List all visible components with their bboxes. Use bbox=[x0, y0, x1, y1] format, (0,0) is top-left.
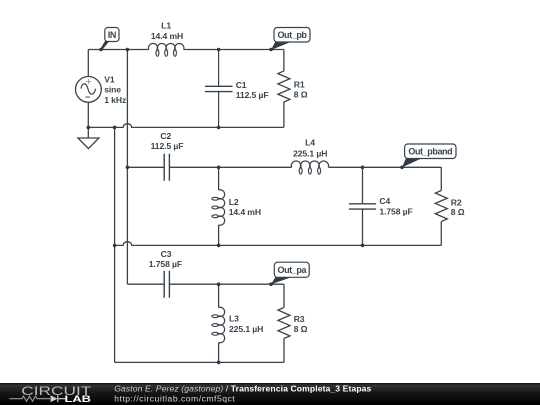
wire L2 leads bbox=[218, 167, 220, 245]
svg-text:14.4 mH: 14.4 mH bbox=[229, 207, 261, 217]
junction L3 top bbox=[217, 282, 221, 286]
junction L2 top bbox=[217, 166, 221, 170]
wire stage3 bottom rail bbox=[115, 361, 284, 363]
wire R1 leads bbox=[283, 50, 285, 128]
svg-text:112.5 µF: 112.5 µF bbox=[236, 90, 269, 100]
wire R2 leads bbox=[440, 167, 442, 245]
svg-text:V1: V1 bbox=[104, 75, 115, 85]
wire IN feed vertical line bbox=[126, 50, 128, 285]
resistor R2 bbox=[435, 191, 447, 222]
junction C1 bottom bbox=[217, 126, 221, 130]
svg-text:R3: R3 bbox=[294, 314, 305, 324]
junction L2 bottom bbox=[217, 244, 221, 248]
svg-text:LAB: LAB bbox=[65, 394, 92, 404]
node IN flag bbox=[100, 28, 119, 51]
junction gnd feed top bbox=[113, 126, 117, 130]
footer bar bbox=[0, 383, 540, 405]
svg-text:R2: R2 bbox=[451, 197, 462, 207]
junction V1 bottom bbox=[87, 126, 91, 130]
svg-text:L4: L4 bbox=[305, 138, 315, 148]
svg-text:Out_pband: Out_pband bbox=[408, 147, 452, 157]
wire C4 leads bbox=[362, 167, 364, 245]
wire V1 bottom lead bbox=[87, 102, 89, 127]
svg-text:14.4 mH: 14.4 mH bbox=[151, 31, 183, 41]
voltage source V1 bbox=[76, 77, 102, 103]
wire V1 top lead bbox=[87, 50, 89, 77]
svg-text:sine: sine bbox=[104, 85, 121, 95]
wire stage1 top rail bbox=[88, 49, 284, 51]
svg-text:8 Ω: 8 Ω bbox=[294, 89, 308, 99]
capacitor C3 bbox=[164, 271, 169, 298]
inductor L4 bbox=[291, 161, 328, 167]
junction L3 bottom bbox=[217, 361, 221, 365]
wire stage3 input rail bbox=[127, 283, 284, 285]
svg-text:Out_pb: Out_pb bbox=[277, 30, 307, 40]
junction Out_pb tail bbox=[269, 48, 273, 52]
svg-text:1.758 µF: 1.758 µF bbox=[149, 259, 182, 269]
junction Out_pa tail bbox=[269, 282, 273, 286]
resistor R1 bbox=[278, 71, 290, 102]
svg-text:C2: C2 bbox=[160, 131, 171, 141]
junction IN feed top bbox=[126, 48, 130, 52]
inductor L2 bbox=[219, 190, 225, 225]
capacitor C2 bbox=[164, 154, 169, 181]
junction Out_pband tail bbox=[400, 166, 404, 170]
svg-text:C4: C4 bbox=[379, 196, 390, 206]
wire ground feed vertical line bbox=[114, 127, 116, 362]
node Out_pband flag bbox=[402, 144, 456, 167]
junction C1 top bbox=[217, 48, 221, 52]
wire stage1 bottom rail with hop over IN feed bbox=[88, 124, 284, 128]
svg-text:IN: IN bbox=[108, 30, 116, 40]
wire stage2 input rail bbox=[127, 166, 441, 168]
svg-text:Out_pa: Out_pa bbox=[277, 265, 307, 275]
svg-text:8 Ω: 8 Ω bbox=[451, 207, 465, 217]
svg-text:1.758 µF: 1.758 µF bbox=[379, 207, 412, 217]
svg-text:L3: L3 bbox=[229, 314, 239, 324]
junction stage2 input bbox=[126, 166, 130, 170]
footer logo squiggle bbox=[10, 396, 51, 401]
svg-text:L2: L2 bbox=[229, 197, 239, 207]
junction gnd feed stage2 bbox=[113, 244, 117, 248]
wire L3 leads bbox=[218, 284, 220, 362]
svg-text:Gaston E. Perez (gastonep) / T: Gaston E. Perez (gastonep) / Transferenc… bbox=[114, 384, 371, 394]
svg-text:1 kHz: 1 kHz bbox=[104, 95, 126, 105]
capacitor C1 bbox=[205, 86, 233, 91]
svg-text:R1: R1 bbox=[294, 80, 305, 90]
inductor L3 bbox=[219, 307, 225, 342]
ground bbox=[78, 127, 99, 148]
inductor L1 bbox=[148, 43, 183, 49]
svg-text:8 Ω: 8 Ω bbox=[294, 324, 308, 334]
wire R3 leads bbox=[283, 284, 285, 362]
svg-text:C1: C1 bbox=[236, 80, 247, 90]
svg-text:225.1 µH: 225.1 µH bbox=[229, 324, 263, 334]
svg-text:http://circuitlab.com/cmf5qct: http://circuitlab.com/cmf5qct bbox=[114, 394, 235, 404]
svg-text:L1: L1 bbox=[161, 21, 171, 31]
node Out_pb flag bbox=[271, 28, 310, 51]
svg-text:C3: C3 bbox=[161, 249, 172, 259]
resistor R3 bbox=[278, 308, 290, 339]
junction IN tail on top rail bbox=[99, 48, 103, 52]
svg-text:112.5 µF: 112.5 µF bbox=[151, 141, 184, 151]
node Out_pa flag bbox=[271, 262, 309, 284]
wire stage2 bottom rail with hop over IN feed bbox=[115, 242, 442, 246]
junction C4 top bbox=[361, 166, 365, 170]
capacitor C4 bbox=[349, 204, 376, 209]
svg-text:225.1 µH: 225.1 µH bbox=[293, 148, 327, 158]
junction C4 bottom bbox=[361, 244, 365, 248]
